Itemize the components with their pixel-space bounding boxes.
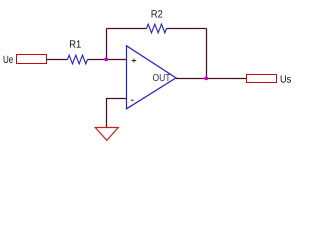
port box Us — [247, 75, 277, 83]
ground — [95, 128, 118, 141]
wire top rail right — [167, 28, 207, 30]
node junction A — [104, 58, 108, 62]
wire op-amp output to Us — [176, 78, 247, 80]
op-amp U1 — [127, 46, 177, 109]
wire op-amp - input to ground corner — [107, 99, 127, 128]
label Ue — [4, 56, 13, 63]
wire top rail left — [107, 28, 147, 30]
port box Ue — [17, 55, 47, 64]
resistor R2 — [147, 10, 167, 33]
port Us — [247, 75, 291, 83]
label R2 — [152, 10, 163, 17]
node junction output — [204, 77, 208, 81]
wire Ue to R1 — [47, 59, 68, 61]
wire feedback down to output node — [206, 29, 208, 79]
wire junction up to feedback rail — [106, 29, 108, 60]
port Ue — [4, 55, 47, 64]
resistor R1 — [68, 40, 88, 63]
pin - mark — [131, 99, 134, 101]
pin label OUT — [153, 74, 170, 81]
label R1 — [70, 40, 81, 47]
wire R1 to op-amp + input — [88, 59, 127, 61]
pin + mark — [132, 59, 137, 63]
